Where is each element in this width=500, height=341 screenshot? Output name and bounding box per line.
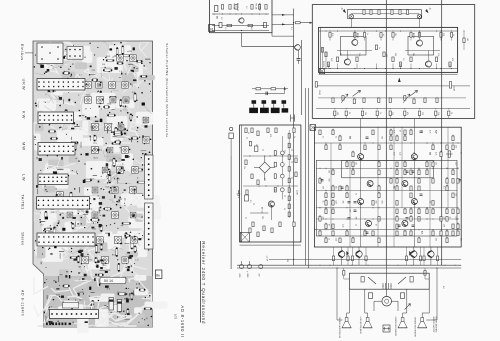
connector J5 (TA/TB1) [37,197,90,209]
svg-text:4,7k: 4,7k [393,130,395,133]
resistor [295,158,297,163]
resistor [342,96,344,101]
capacitor C22 [406,217,409,219]
svg-text:1n: 1n [378,47,380,49]
resistor [363,98,365,103]
wire amp column x350 [349,160,351,247]
transistor T9 [268,201,274,207]
svg-text:0,1: 0,1 [249,200,251,203]
wire stub [380,37,382,40]
capacitor C42 [259,265,263,269]
resistor [440,152,442,157]
svg-text:1k: 1k [460,152,462,154]
resistor [288,167,290,172]
arrow a1 [282,14,286,16]
resistor [325,145,327,150]
resistor [370,10,372,15]
wire decoder rail bottom [319,68,458,70]
bus B4 x=308.6 [308,88,310,268]
connector J4 (LW) [38,174,68,185]
connector J2 (KW) [38,112,74,124]
capacitor C27 [420,130,423,132]
bus B1 x=293.6 [293,9,295,266]
resistor [378,98,380,103]
indicator lamp La4 [280,163,284,167]
svg-text:220: 220 [421,112,423,115]
resistor [396,231,398,236]
resistor [378,10,380,15]
svg-text:1/75: 1/75 [174,314,178,320]
resistor [372,231,374,236]
resistor [404,162,406,167]
resistor [436,98,438,103]
box power supply [349,273,429,289]
svg-text:560: 560 [328,179,330,182]
wire stub [328,64,330,69]
PCB solder dots [137,127,139,129]
svg-text:2200: 2200 [238,274,240,278]
svg-text:1,8k: 1,8k [437,112,439,115]
svg-text:0,47: 0,47 [455,162,457,166]
capacitor C23 [366,136,369,138]
svg-text:33k: 33k [355,217,357,220]
resistor [410,170,412,175]
box indicator double edge [241,125,243,242]
resistor [432,209,434,214]
svg-text:VORDERE RECHTS 4OHM: VORDERE RECHTS 4OHM [414,317,416,338]
svg-text:TA/TB1: TA/TB1 [21,194,25,209]
resistor [361,111,363,116]
svg-text:Bu: Bu [156,273,160,277]
capacitor C3 [297,58,301,60]
box FM decoder inner [319,27,458,72]
resistor [399,62,401,67]
resistor [404,231,406,236]
PCB pour traces [89,296,109,298]
svg-text:0,1: 0,1 [393,186,395,189]
resistor [245,160,247,165]
transistor T15 [411,199,417,205]
corner box 32/064 [240,232,249,242]
wire motor right [392,300,399,302]
svg-text:1k: 1k [293,136,295,138]
resistor [389,111,391,116]
transistor T6 [426,61,432,68]
svg-text:0,47: 0,47 [330,58,332,62]
resistor [354,33,356,38]
resistor [418,179,420,184]
svg-text:AF 121: AF 121 [261,207,264,214]
svg-text:Stereo: Stereo [21,232,25,246]
dial lamp box [348,10,422,19]
svg-text:2,2k: 2,2k [342,224,344,227]
switch bar SW2 [260,108,269,113]
bus left x231.1 [230,156,232,269]
trimmer right [449,82,451,89]
resistor [257,180,259,185]
resistor [424,98,426,103]
wire stub [392,64,394,69]
svg-text:0,47: 0,47 [435,130,437,134]
wire amp column x394 [393,127,395,247]
switch bar SW3 [271,108,280,113]
resistor [389,98,391,103]
resistor [329,33,331,38]
wire LS1 feed [348,289,350,313]
resistor [404,209,406,214]
capacitor C31 [366,231,369,233]
resistor [336,57,338,62]
resistor [274,162,276,167]
svg-text:8,2k: 8,2k [331,33,333,36]
svg-text:4,7: 4,7 [382,34,384,37]
wire amp rail C [316,167,457,169]
svg-text:C144: C144 [453,86,455,91]
resistor [418,217,420,222]
corner box 32/019 [320,69,325,74]
resistor [436,57,438,62]
resistor [345,111,347,116]
svg-text:220: 220 [413,201,415,204]
resistor [391,10,393,15]
svg-text:100: 100 [381,136,383,139]
resistor [365,256,367,261]
svg-text:TO-18: TO-18 [255,3,257,10]
relay coil R [401,293,405,299]
box tuning indicator [240,125,301,242]
transistor T4 [417,40,423,46]
wire stage rail1 [316,85,470,87]
switch block S10 (Ein/Aus) [37,43,63,64]
bus center x=386.3 [385,0,387,265]
resistor [452,224,454,229]
svg-text:47: 47 [399,130,401,132]
svg-text:LW: LW [22,174,27,182]
svg-text:220: 220 [349,136,351,139]
transistor T6 [426,61,432,67]
svg-text:0,1: 0,1 [443,186,445,189]
resistor [332,209,334,214]
resistor [346,162,348,167]
wire stub [364,37,366,40]
resistor [440,217,442,222]
resistor [390,136,392,141]
svg-text:220: 220 [421,130,423,133]
capacitor C26 [354,209,357,211]
wire stub [356,64,358,69]
resistor [390,145,392,150]
sub box decoder L [341,36,367,55]
resistor [319,217,321,222]
label plate 5V14 [100,278,126,284]
svg-text:100: 100 [328,170,330,173]
diode D30 [346,251,348,256]
wire S1 to bus y15 [272,14,294,16]
edge connector strip J9 [145,203,154,249]
svg-text:AM: AM [216,16,219,19]
svg-text:2x1N: 2x1N [296,190,298,195]
svg-text:39k: 39k [339,53,341,56]
resistor [245,128,247,133]
transistor T20 [411,251,417,257]
resistor [396,224,398,229]
resistor [410,130,412,135]
svg-text:C143: C143 [318,90,320,95]
resistor R2 [229,5,231,10]
resistor [372,201,374,206]
capacitor C13 [245,195,249,201]
wire amp column x402 [401,127,403,208]
resistor [332,224,334,229]
capacitor C46 [410,277,413,283]
resistor [295,172,297,177]
transistor T1 [239,17,244,23]
resistor R4c [265,5,267,10]
box NF amplifier inner [316,160,457,236]
capacitor C41 [247,265,251,269]
capacitor C902 [117,300,122,312]
diode D31 [409,251,411,256]
module box S1 (AM unit) [210,0,273,33]
resistor [347,256,349,261]
socket Bu [155,270,162,279]
resistor [435,111,437,116]
wire decoder mid R [405,50,440,52]
variable arrow [405,304,411,310]
svg-text:470: 470 [263,178,265,181]
svg-text:4,7k: 4,7k [455,217,457,220]
resistor [288,188,290,193]
transistor T5 [344,58,350,65]
wire LS3 feed [406,289,408,313]
wire T18 emitter [341,257,343,265]
svg-text:15k: 15k [429,201,431,204]
svg-text:10k: 10k [460,238,462,241]
resistor [452,193,454,198]
arrow b1 [343,9,346,13]
resistor R20 [256,88,261,90]
diode stage [410,90,418,96]
wire stub [337,64,339,69]
resistor [396,209,398,214]
resistor [424,271,426,276]
svg-text:RECHTS (HOEHEN): RECHTS (HOEHEN) [435,317,437,333]
wire amp column x430 [429,160,431,247]
resistor [396,186,398,191]
resistor [410,209,412,214]
indicator lamp La5 [280,174,284,178]
capacitor C2 [264,23,267,28]
wire lamp rail [351,13,419,15]
transistor T3 [352,39,358,46]
box FM section outer [312,5,474,119]
wire S1 rails [212,13,269,15]
wire stub [410,37,412,40]
svg-text:1,5k: 1,5k [437,53,439,56]
resistor [274,151,276,156]
wire amp rail G [314,229,461,231]
wire jack drop [230,139,232,157]
lamp La2 [417,14,422,19]
wire drops T3/T4 [354,31,356,39]
wire T19 collector [358,247,360,251]
resistor [325,224,327,229]
svg-text:0,1: 0,1 [421,231,423,234]
wire LS4 feed [428,289,430,313]
PCB lead lines [132,290,134,295]
resistor R21 [271,88,276,90]
wire t9 [270,207,272,220]
capacitor C2b [219,23,222,28]
resistor [392,57,394,62]
wire stub [449,64,451,69]
speaker LS2 (hinten links) [366,318,369,322]
capacitor C1 [215,6,218,12]
resistor [457,209,459,214]
capacitor C29 [341,186,344,188]
resistor [288,212,290,217]
bus supply y265.2 [237,264,461,266]
svg-text:47: 47 [413,152,415,154]
resistor [279,222,281,227]
resistor [432,162,434,167]
resistor [332,170,334,175]
switch arm L [368,277,376,284]
resistor [332,201,334,206]
transistor T12 [367,181,373,187]
wire LS4 outer [436,268,438,320]
svg-text:560: 560 [375,201,377,204]
resistor [426,162,428,167]
resistor [346,193,348,198]
resistor [343,271,345,276]
svg-text:HINTERE RECHTS 4OHM: HINTERE RECHTS 4OHM [394,317,396,337]
resistor [332,193,334,198]
svg-text:47: 47 [328,224,330,226]
transistor T13 [402,181,408,187]
motor M1 [382,296,392,306]
resistor [378,217,380,222]
speaker LS4 (vorn rechts) [421,318,424,322]
resistor [252,222,254,227]
wire T20 collector [413,247,415,251]
wire stub [329,37,331,40]
svg-text:39: 39 [348,112,350,114]
box NF mid sub [342,160,434,177]
resistor [457,231,459,236]
PCB bottom edge pads [46,323,48,326]
resistor [249,141,251,146]
svg-text:220: 220 [322,217,324,220]
resistor [436,256,438,261]
svg-text:0,47: 0,47 [393,152,395,156]
resistor [452,179,454,184]
wire stub [392,37,394,40]
capacitor C40 [240,265,244,269]
svg-text:33k: 33k [342,201,344,204]
speaker LS1 (vorn links) [345,318,348,322]
wire LS2 feed [364,289,366,313]
svg-text:100: 100 [336,112,338,115]
resistor [404,111,406,116]
resistor [375,45,377,50]
svg-text:330: 330 [394,53,396,56]
indicator lamp La3 [280,151,284,155]
resistor [334,111,336,116]
resistor [405,256,407,261]
svg-text:10k: 10k [355,162,357,165]
wire amp rail E [316,189,457,191]
svg-text:47: 47 [375,224,377,226]
resistor [346,186,348,191]
resistor [426,209,428,214]
svg-text:220: 220 [349,209,351,212]
arrow up [284,86,286,90]
svg-text:4,7k: 4,7k [435,152,437,155]
resistor [410,231,412,236]
svg-text:2,2k: 2,2k [399,152,401,155]
resistor [446,238,448,243]
resistor R7 [296,22,301,24]
svg-text:220: 220 [443,217,445,220]
svg-text:4,7k: 4,7k [429,130,431,133]
svg-text:1,5: 1,5 [224,27,226,30]
svg-text:145: 145 [466,38,468,41]
relay coil L [369,293,373,299]
svg-text:KW: KW [22,111,27,119]
wire trafo feed [385,265,387,296]
capacitor C901 [109,298,114,311]
resistor [451,33,453,38]
svg-text:470: 470 [258,274,260,277]
PCB copper patches [107,50,119,58]
connector J1 (UKW) [37,79,85,91]
resistor [432,231,434,236]
transistor T19 [356,251,362,257]
edge connector strip J8 [145,155,154,199]
switch bar SW1 [249,108,258,113]
resistor [267,128,269,133]
box FM decoder inner double [319,27,321,72]
resistor [432,201,434,206]
resistor [325,238,327,243]
wire stub [400,64,402,69]
resistor [452,145,454,150]
resistor [372,130,374,135]
resistor [452,136,454,141]
wire stub [440,37,442,40]
resistor [325,201,327,206]
arrow up below box [398,78,401,83]
resistor [446,231,448,236]
resistor [432,179,434,184]
wire motor left [374,300,382,302]
bracket mark [291,115,295,122]
resistor [457,179,459,184]
resistor [274,187,276,192]
resistor [288,134,290,139]
transistor T21 [428,251,434,257]
wire lamp drops [350,19,352,28]
wire rail y93.3 [255,92,285,94]
wire amp column x448 [447,127,449,208]
resistor R4 [258,5,260,10]
svg-text:1k: 1k [335,136,337,138]
wire Ein/Aus lead [25,52,33,54]
svg-text:1k: 1k [355,224,357,226]
svg-text:TO-18: TO-18 [233,3,235,10]
resistor [321,48,323,53]
